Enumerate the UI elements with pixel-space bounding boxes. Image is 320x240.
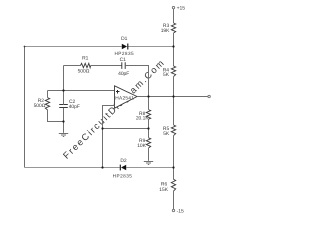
resistor R8 — [146, 110, 150, 120]
node -15 supply terminal — [172, 209, 174, 211]
node +15 supply terminal — [172, 6, 174, 8]
node: D2 clamp junction — [172, 166, 174, 168]
wire: feedback divider row to inverting input — [103, 128, 149, 130]
ground (R9 return) — [144, 162, 153, 165]
wire: inverting input stub — [103, 106, 115, 168]
wire: C1 right lead to output column — [125, 66, 148, 97]
node: output terminal — [208, 95, 210, 97]
wire: non-inverting input row — [48, 90, 115, 92]
node: inverting input / divider junction — [101, 127, 103, 129]
svg-text:-15: -15 — [177, 208, 184, 214]
wire: D2 anode to R5/R6 junction — [126, 167, 173, 169]
wire: R9 lead to ground — [148, 129, 150, 161]
wire: output row — [137, 96, 208, 98]
svg-text:40pF: 40pF — [118, 71, 129, 77]
wire: left feedback loop vertical — [24, 47, 26, 168]
resistor R2 — [45, 98, 49, 110]
node: R4/R5 output junction — [172, 95, 174, 97]
svg-text:C2: C2 — [69, 99, 76, 105]
svg-text:500Ω: 500Ω — [34, 103, 46, 109]
node: R8/R9 divider junction — [147, 127, 149, 129]
capacitor C2 — [59, 105, 68, 108]
svg-text:5K: 5K — [163, 131, 170, 137]
wire: D1 cathode to R3/R4 junction — [128, 46, 173, 48]
svg-text:D2: D2 — [120, 158, 127, 164]
op-amp U1 HA2541 — [115, 86, 138, 108]
svg-text:C1: C1 — [120, 57, 127, 63]
wire: R6 to -15 terminal — [173, 191, 175, 209]
wire: top clamp rail from left loop to D1 anode — [25, 46, 122, 48]
svg-text:R1: R1 — [82, 56, 89, 62]
svg-text:D1: D1 — [121, 36, 128, 42]
resistor R9 — [146, 138, 150, 148]
wire: output row to R5 and R5 to bottom rail — [173, 97, 175, 180]
node: D1 clamp junction — [172, 45, 174, 47]
svg-text:HP2835: HP2835 — [114, 51, 134, 56]
diode D2 — [120, 165, 126, 171]
node: C1/R8 output junction — [147, 95, 149, 97]
wire: R4 to output row — [173, 77, 175, 97]
svg-text:10K: 10K — [137, 143, 146, 149]
wire: R1 row leads — [64, 65, 122, 67]
node: top-left loop corner — [24, 46, 26, 48]
capacitor C1 — [122, 62, 125, 69]
ground (C2/R2 return) — [59, 134, 68, 137]
resistor R4 — [171, 66, 175, 77]
resistor R6 — [171, 179, 175, 191]
resistor R1 — [81, 63, 91, 67]
wire: R1 left lead down to +input node — [63, 66, 65, 91]
svg-text:HA2541: HA2541 — [115, 96, 134, 102]
wire: R8 leads — [148, 97, 150, 129]
resistor R5 — [171, 125, 175, 136]
svg-text:HP2835: HP2835 — [113, 173, 133, 178]
wire: R2 leads — [48, 91, 64, 122]
wire: +15 to R3 — [173, 9, 175, 23]
svg-text:20.1K: 20.1K — [136, 115, 150, 121]
node: R2/C2 ground junction — [62, 120, 64, 122]
svg-text:500Ω: 500Ω — [78, 69, 90, 75]
svg-text:15K: 15K — [159, 187, 168, 193]
svg-text:19K: 19K — [161, 28, 170, 34]
node: inverting loop / bottom rail junction — [101, 166, 103, 168]
svg-text:+15: +15 — [177, 6, 186, 12]
resistor R3 — [171, 23, 175, 33]
svg-text:5K: 5K — [163, 72, 170, 78]
diode D1 — [122, 44, 128, 50]
svg-text:R6: R6 — [161, 181, 168, 187]
wire: R3 to R4 through D1 junction — [173, 33, 175, 66]
wire: bottom rail left section to D2 cathode — [25, 167, 120, 169]
wire: C2 leads — [63, 91, 65, 133]
node: +input / R1 junction — [62, 89, 64, 91]
svg-text:40pF: 40pF — [69, 104, 80, 110]
